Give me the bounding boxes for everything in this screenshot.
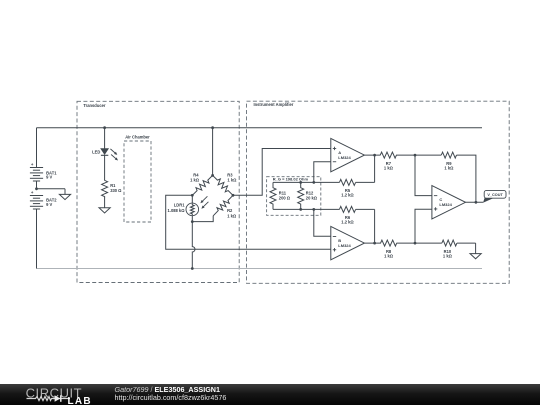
footer title and url text [115, 386, 227, 402]
svg-text:1 kΩ: 1 kΩ [384, 254, 394, 259]
wire BAT1 to mid junction [36, 181, 38, 189]
svg-text:1 kΩ: 1 kΩ [443, 254, 453, 259]
CircuitLab logo wordmark [25, 384, 95, 405]
V_COUT flag pointer [483, 198, 494, 203]
LED emission arrows [110, 149, 116, 154]
photoresistor LDR1 [186, 203, 199, 216]
node bridge bottom junction [191, 220, 194, 223]
resistor R2 bridge lower-right [213, 195, 233, 216]
Instrument Amplifier enclosure dashed box [247, 101, 510, 283]
node amp C output junction [475, 201, 478, 204]
op-amp B LM324 [331, 226, 365, 259]
node R_G top right junction [312, 181, 315, 184]
svg-text:1 kΩ: 1 kΩ [227, 177, 237, 182]
svg-text:1 kΩ: 1 kΩ [444, 166, 454, 171]
svg-text:LM324: LM324 [439, 202, 452, 207]
wire battery midpoint to ground [37, 188, 66, 190]
node amp A output junction [373, 154, 376, 157]
resistor R10 1k [442, 240, 457, 246]
svg-text:1 kΩ: 1 kΩ [190, 177, 200, 182]
svg-text:V_COUT: V_COUT [487, 193, 503, 197]
resistor R4 bridge upper-left [192, 175, 212, 195]
node bridge left vertex [191, 194, 194, 197]
wire bridge left vertex to amp B+ input [166, 195, 331, 249]
wire R_G bottom bus [273, 208, 314, 210]
svg-text:+: + [31, 162, 34, 167]
wire R10 to ground [457, 242, 476, 244]
wire R6 to amp B output [374, 209, 376, 243]
resistor R5 1.2k [314, 181, 340, 183]
Air Chamber dashed box [124, 141, 151, 222]
svg-text:20 kΩ: 20 kΩ [306, 196, 318, 201]
wire R1 to ground [104, 196, 106, 207]
ground battery midpoint [59, 194, 70, 199]
resistor R12 20k [298, 182, 304, 209]
resistor R11 200 [270, 182, 276, 209]
svg-text:Transducer: Transducer [83, 103, 105, 108]
wire junction to amp C- input [415, 155, 432, 196]
svg-text:1.2 kΩ: 1.2 kΩ [341, 220, 354, 225]
wire R_G top bus [273, 181, 314, 183]
LDR1 incident light arrows [201, 196, 207, 202]
svg-text:1 kΩ: 1 kΩ [227, 213, 237, 218]
resistor R3 bridge upper-right [213, 175, 233, 195]
wire amp A- input elbow [314, 162, 331, 183]
svg-text:330 Ω: 330 Ω [110, 188, 122, 193]
node R7 R9 junction [414, 154, 417, 157]
svg-text:Instrument Amplifier: Instrument Amplifier [254, 102, 294, 107]
ground below R1 [99, 208, 110, 213]
CircuitLab footer bar [0, 384, 540, 405]
resistor R8 1k [381, 240, 397, 246]
node R8 R10 junction [414, 242, 417, 245]
wire R5 to amp A output [374, 155, 376, 182]
wire amp B output [364, 242, 380, 244]
resistor R6 1.2k [314, 208, 340, 210]
svg-text:9 V: 9 V [46, 202, 52, 207]
wire R2 bottom elbow [192, 216, 213, 222]
V_COUT net label [484, 190, 506, 198]
svg-text:LED: LED [92, 149, 100, 154]
node bridge top rail junction [211, 126, 214, 129]
svg-text:200 Ω: 200 Ω [279, 196, 291, 201]
resistor R9 1k [441, 152, 456, 158]
svg-text:LDR1: LDR1 [174, 203, 185, 208]
node bottom rail junction [191, 267, 194, 270]
wire left rail lower [36, 209, 38, 268]
node R_G bottom right junction [312, 208, 315, 211]
wire left rail upper [36, 128, 38, 168]
node amp B output junction [373, 242, 376, 245]
LED diode symbol [101, 149, 108, 155]
op-amp C LM324 [432, 186, 466, 219]
wire LDR top lead [191, 195, 193, 203]
ground output divider [470, 254, 481, 259]
node bridge top vertex [211, 174, 214, 177]
svg-text:LM324: LM324 [338, 243, 351, 248]
wire amp B- input elbow [314, 209, 331, 236]
svg-text:R_G = 198.02 Ohm: R_G = 198.02 Ohm [273, 177, 309, 182]
wire top supply rail [37, 127, 483, 129]
node battery midpoint junction [35, 187, 38, 190]
battery BAT1 9V [30, 167, 43, 169]
resistor R1 [102, 180, 108, 196]
node R12 bottom junction [299, 208, 302, 211]
wire R7 to R9 [397, 154, 442, 156]
svg-text:+: + [31, 190, 34, 195]
op-amp A LM324 [331, 138, 365, 171]
wire junction to amp C+ input [415, 209, 432, 243]
svg-text:1.088 kΩ: 1.088 kΩ [168, 208, 186, 213]
wire bridge bottom to rail with hop [192, 222, 195, 269]
wire R8 to R10 [397, 242, 442, 244]
resistor R7 1k [380, 152, 396, 158]
wire amp A output [364, 154, 380, 156]
wire LDR bottom lead [191, 216, 193, 222]
svg-text:9 V: 9 V [46, 175, 52, 180]
node bridge right vertex [232, 194, 235, 197]
svg-text:Air Chamber: Air Chamber [125, 134, 150, 139]
R_G dashed box [267, 177, 321, 216]
node R12 top junction [299, 181, 302, 184]
svg-text:1 kΩ: 1 kΩ [384, 166, 394, 171]
wire bridge right vertex to amp A+ input [233, 148, 331, 195]
wire R9 feedback to output [457, 155, 476, 202]
Transducer enclosure dashed box [77, 101, 239, 282]
battery BAT2 9V [30, 195, 43, 197]
svg-text:LM324: LM324 [338, 155, 351, 160]
wire bridge top feed [212, 128, 214, 176]
wire LED cathode to R1 [104, 155, 106, 180]
wire LED anode [104, 128, 106, 149]
wire bottom return rail [37, 268, 483, 270]
wire amp C output [466, 201, 484, 203]
svg-text:1.2 kΩ: 1.2 kΩ [341, 193, 354, 198]
node LED top junction [103, 126, 106, 129]
